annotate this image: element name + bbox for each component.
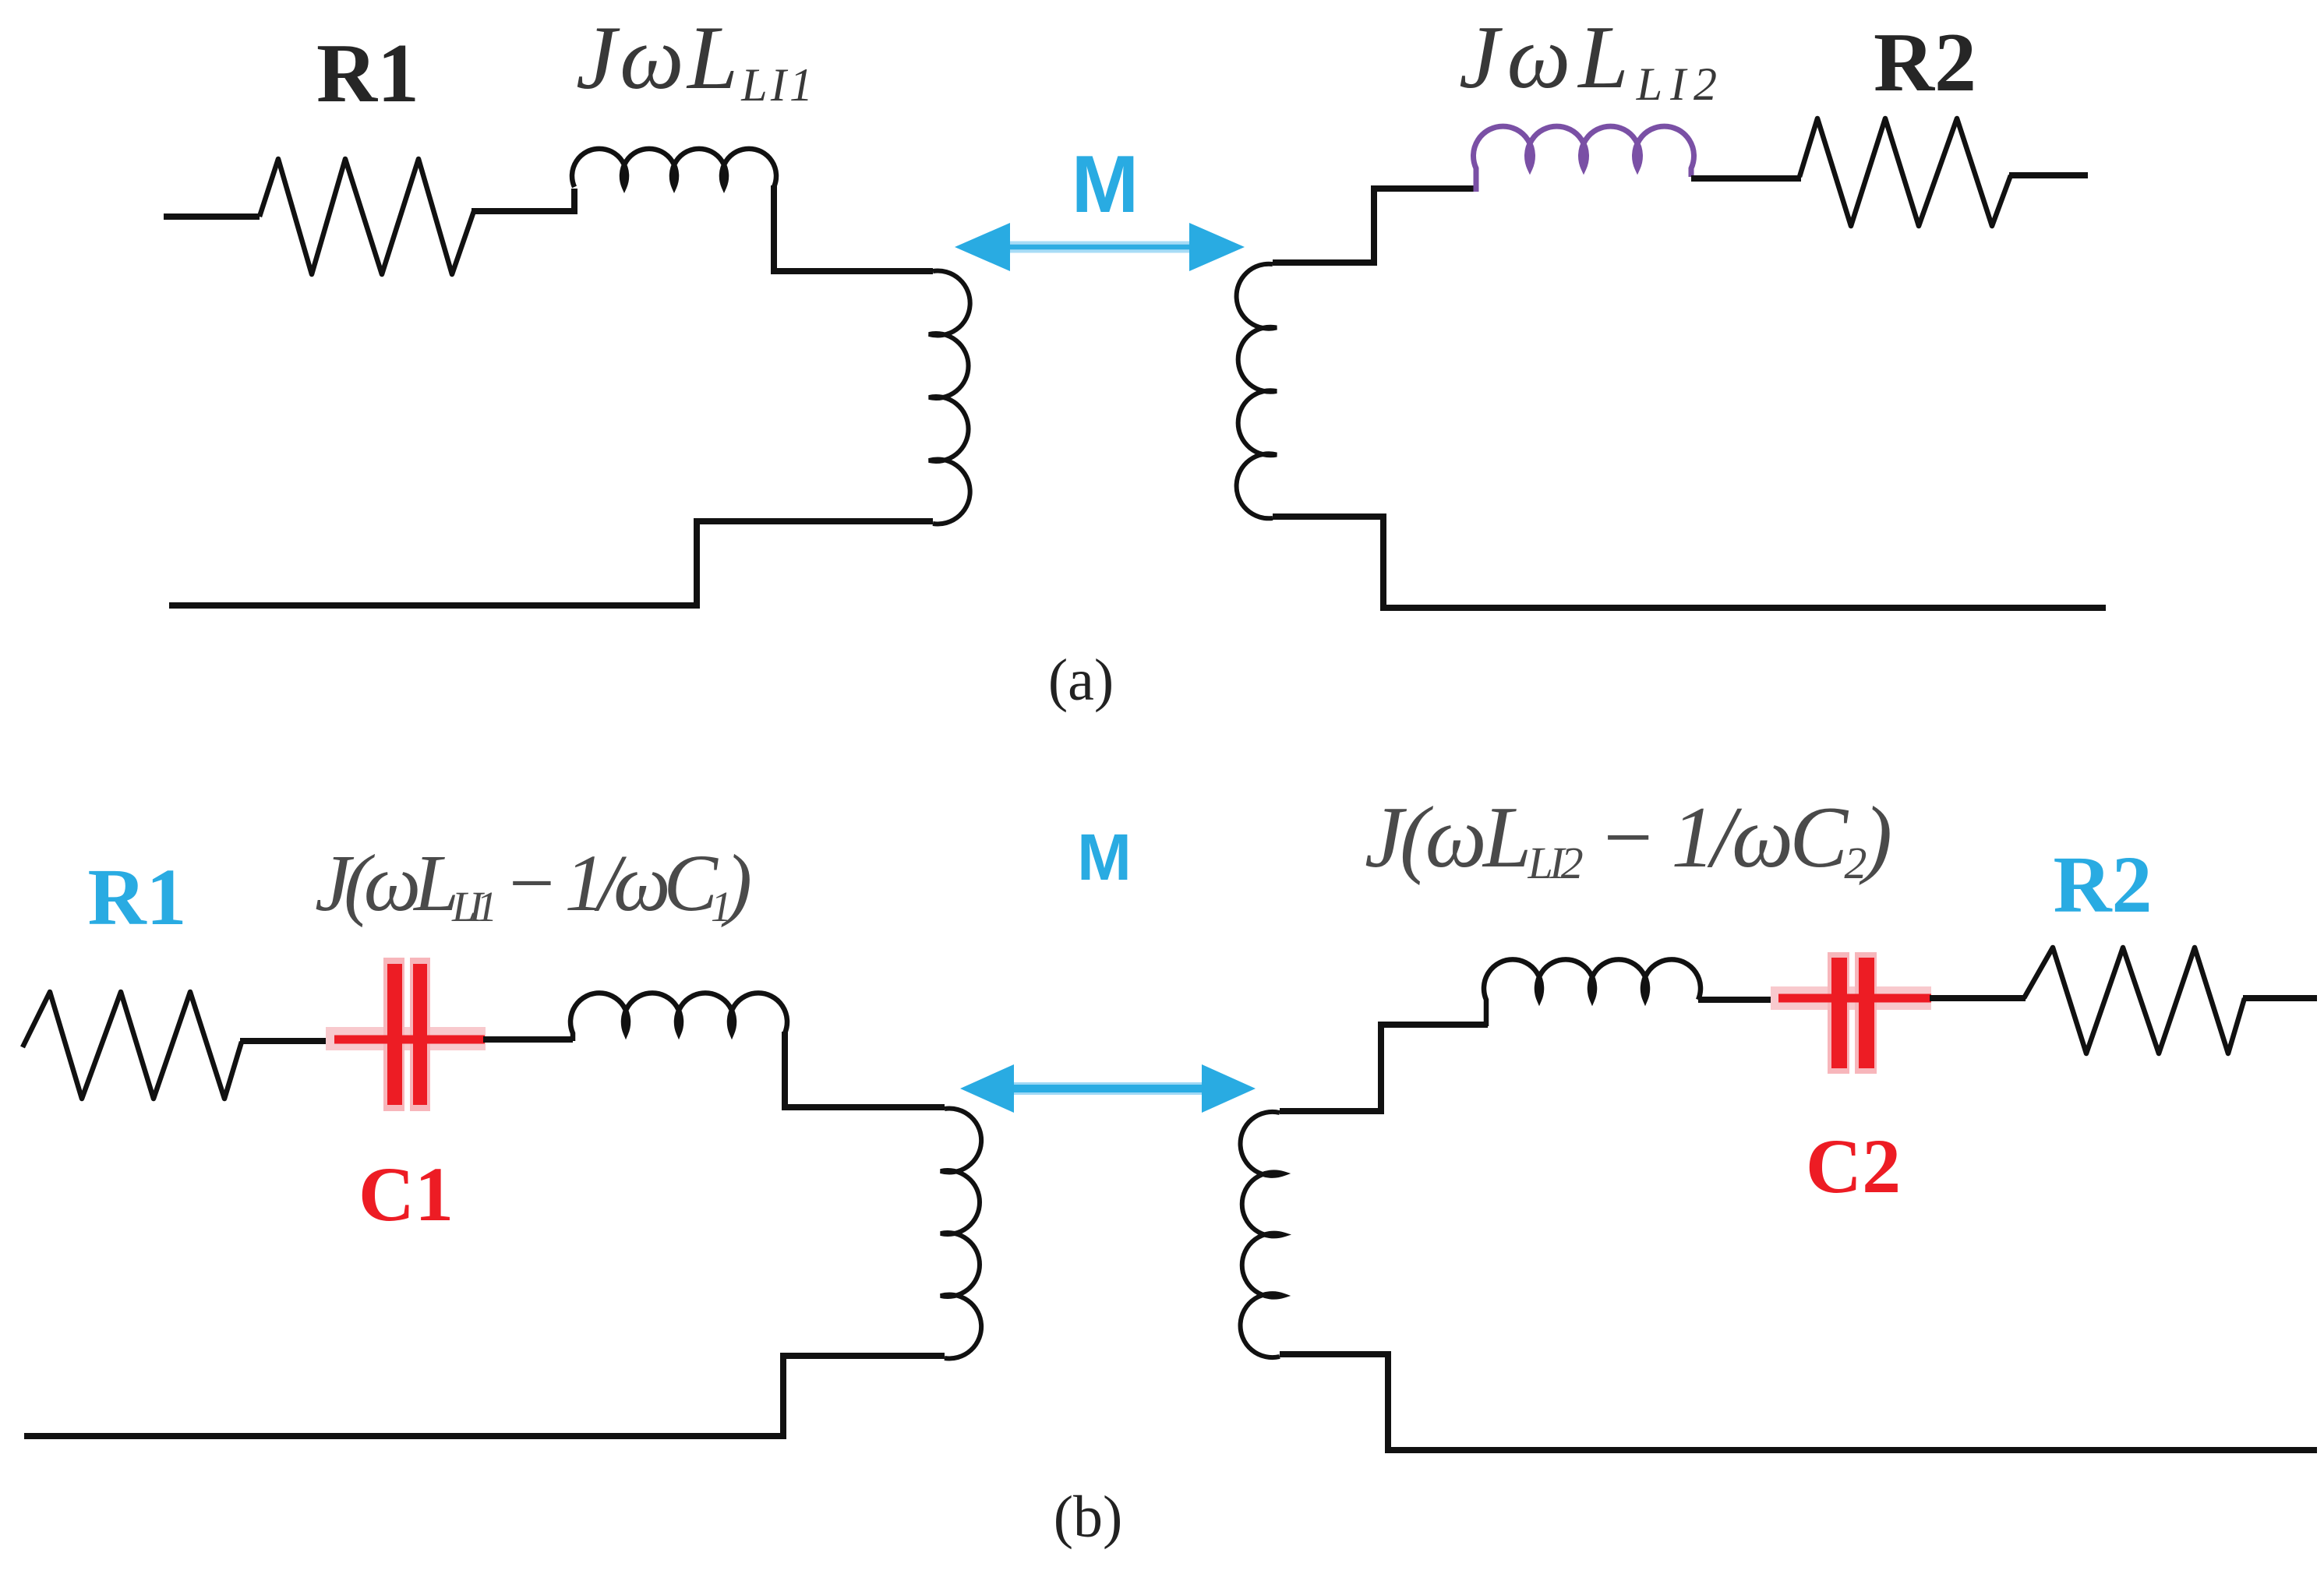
resistor R2 (b): [2024, 948, 2245, 1053]
wire: primary coil bottom return (b): [24, 1356, 945, 1436]
wire: R1 to leakage inductor L_LI1 (a): [472, 189, 574, 211]
inductor JwL_LI1 (a): [572, 149, 776, 187]
wire: right lead of secondary loop (b): [2243, 995, 2317, 1001]
wire: C2 to R2 (b): [1930, 995, 2026, 1001]
wire: primary coil bottom return (a): [169, 521, 933, 605]
svg-text:R2: R2: [2053, 840, 2152, 930]
svg-text:C2: C2: [1806, 1123, 1901, 1209]
capacitor C1 (b): [326, 958, 486, 1111]
mutual inductance arrow M (a): [955, 223, 1245, 271]
wire: L_LI2 to R2 (a): [1691, 175, 1801, 182]
svg-text:M: M: [1077, 820, 1132, 894]
transformer primary winding (a): [929, 271, 970, 524]
wire: inductor to C2 (b): [1698, 997, 1780, 1003]
wire: secondary coil top to L_LI2 (a): [1273, 189, 1478, 263]
svg-text:M: M: [1072, 139, 1139, 230]
mutual inductance arrow M (b): [960, 1064, 1256, 1113]
resistor R2 (a): [1800, 118, 2011, 226]
svg-text:(b): (b): [1054, 1484, 1123, 1550]
resistor R1 (a): [260, 159, 474, 274]
svg-text:R1: R1: [316, 27, 419, 120]
wire: C1 to inductor (b): [483, 1036, 573, 1043]
capacitor C2 (b): [1771, 952, 1931, 1074]
inductor leakage L_LI2 (b): [1484, 959, 1701, 1026]
wire: secondary coil top to inductor (b): [1280, 1025, 1488, 1111]
transformer secondary winding (a): [1237, 264, 1277, 519]
transformer secondary winding (b): [1241, 1112, 1284, 1357]
wire: left lead of primary loop (a): [164, 214, 260, 220]
wire: inductor to primary coil (b): [785, 1032, 945, 1107]
wire: right lead of secondary loop (a): [2009, 172, 2088, 178]
svg-text:R1: R1: [87, 852, 186, 942]
svg-text:C1: C1: [358, 1151, 454, 1237]
svg-text:(a): (a): [1048, 648, 1114, 713]
svg-text:J(ωLLI2 − 1/ωC2): J(ωLLI2 − 1/ωC2): [1365, 789, 1892, 888]
inductor leakage L_LI1 (b): [570, 993, 787, 1041]
inductor JwL_LI2 purple (a): [1474, 126, 1694, 192]
svg-text:J(ωLLI1 − 1/ωC1): J(ωLLI1 − 1/ωC1): [315, 838, 752, 930]
resistor R1 (b): [23, 992, 242, 1099]
wire: secondary coil bottom return (a): [1273, 517, 2106, 608]
transformer primary winding (b): [941, 1109, 981, 1359]
wire: R1 to C1 (b): [240, 1038, 337, 1044]
wire: L_LI1 to primary coil top (a): [774, 185, 933, 271]
wire: secondary coil bottom return (b): [1280, 1354, 2317, 1450]
svg-text:R2: R2: [1874, 16, 1976, 109]
